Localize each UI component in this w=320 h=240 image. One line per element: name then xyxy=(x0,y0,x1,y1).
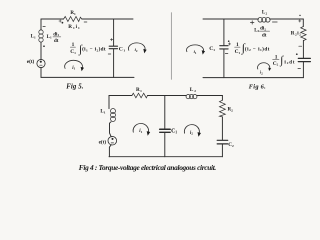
loop current i2 arrow xyxy=(128,43,145,51)
svg-text:R2i2: R2i2 xyxy=(291,31,302,37)
capacitor C1 branch upper wire xyxy=(113,19,115,46)
wire: Fig6 right rail middle xyxy=(302,41,304,58)
svg-text:e(t): e(t) xyxy=(27,58,35,65)
wire: Fig4 left rail lower xyxy=(109,145,111,157)
wire: Fig6 bottom wire xyxy=(203,77,303,79)
svg-text:i2: i2 xyxy=(260,70,263,76)
node dot below L1 xyxy=(43,45,45,47)
svg-text:C1: C1 xyxy=(70,49,76,55)
polarity + before L2 xyxy=(250,21,254,24)
svg-text:C2: C2 xyxy=(273,61,279,67)
wire: Fig4 left rail middle xyxy=(110,122,112,137)
wire: Fig4 right rail top xyxy=(221,96,223,101)
svg-text:C2: C2 xyxy=(228,142,234,148)
svg-text:Fig 5.: Fig 5. xyxy=(66,84,83,91)
svg-text:R2: R2 xyxy=(228,107,234,112)
svg-text:Fig 6.: Fig 6. xyxy=(249,84,266,91)
voltage source e(t) (Fig4) xyxy=(108,136,117,145)
polarity - below C1 xyxy=(108,53,111,55)
polarity + above C1 plates xyxy=(228,43,230,45)
wire: Fig6 top wire right segment xyxy=(270,18,304,20)
capacitor C2 plates (Fig4) xyxy=(217,139,228,141)
resistor R1 (zigzag on top wire) xyxy=(64,17,82,22)
polarity + above C2 xyxy=(296,53,298,55)
svg-text:i1: i1 xyxy=(72,66,75,71)
svg-text:di1: di1 xyxy=(53,31,59,37)
svg-text:R1i1: R1i1 xyxy=(68,24,81,30)
loop current i2 arrow (Fig4) xyxy=(184,125,199,134)
inductor L1 (coil on left rail) xyxy=(39,30,43,34)
divider line between Fig5 and Fig6 xyxy=(170,13,172,80)
node dot before R1 xyxy=(62,22,64,24)
svg-text:dt: dt xyxy=(262,34,267,39)
wire: Fig6 left capacitor branch upper xyxy=(223,19,225,45)
svg-text:i2dt: i2dt xyxy=(284,59,295,65)
loop current i1 arrow xyxy=(65,60,83,68)
svg-text:C1: C1 xyxy=(119,47,126,53)
wire: Fig4 right rail bottom xyxy=(221,144,223,157)
wire: Fig4 top wire middle segment xyxy=(148,95,187,97)
wire: Fig5 top wire left segment xyxy=(41,18,64,20)
capacitor C1 plates (Fig4) xyxy=(160,128,171,130)
wire: Fig4 left rail upper xyxy=(108,96,110,109)
svg-text:(i2 − i1)dt: (i2 − i1)dt xyxy=(245,45,270,52)
node dot at right rail top xyxy=(299,15,300,16)
svg-text:L2: L2 xyxy=(190,87,197,93)
inductor L2 (coil on top wire) xyxy=(258,18,263,23)
wire: Fig5 left rail upper xyxy=(40,19,42,30)
svg-text:L1: L1 xyxy=(100,110,105,115)
loop current i1 arrow (Fig6) xyxy=(187,45,204,52)
wire: Fig6 left capacitor branch lower xyxy=(223,49,225,78)
capacitor C1 branch lower wire xyxy=(113,49,115,77)
wire: Fig4 middle branch upper xyxy=(164,96,166,129)
wire: Fig5 bottom wire xyxy=(41,76,134,78)
polarity - after L2 xyxy=(272,21,277,23)
wire: Fig4 top wire right segment xyxy=(197,95,223,97)
svg-text:e(t): e(t) xyxy=(99,139,107,146)
polarity - above L1 xyxy=(43,26,45,28)
svg-text:Fig 4 : Torque-voltage electri: Fig 4 : Torque-voltage electrical analog… xyxy=(79,163,217,172)
polarity + mark before R1 xyxy=(59,20,62,22)
svg-text:C1: C1 xyxy=(235,49,241,55)
svg-text:di2: di2 xyxy=(260,26,266,32)
svg-text:R1: R1 xyxy=(70,11,76,16)
svg-text:i1: i1 xyxy=(194,49,197,55)
resistor R2 (Fig4 vertical zigzag) xyxy=(220,100,226,117)
wire: Fig4 top wire left segment xyxy=(109,95,132,97)
resistor R2 (vertical zigzag on right rail) xyxy=(301,27,306,41)
svg-text:i1: i1 xyxy=(139,129,142,134)
svg-text:L2: L2 xyxy=(262,11,268,16)
wire: Fig5 top wire right segment xyxy=(82,18,133,20)
svg-text:dt: dt xyxy=(54,39,59,44)
loop current i1 arrow (Fig4) xyxy=(133,123,148,132)
capacitor C2 plates (Fig6) xyxy=(298,57,310,59)
loop current i2 arrow (Fig6) xyxy=(258,63,270,70)
svg-text:(i1 − i2)dt: (i1 − i2)dt xyxy=(82,46,106,53)
resistor R1 (Fig4, zigzag on top wire) xyxy=(132,93,148,98)
svg-text:C1: C1 xyxy=(171,129,177,135)
inductor L1 (Fig4 coil on left rail) xyxy=(111,109,116,114)
polarity - below C1 plates xyxy=(225,53,228,55)
voltage source e(t) xyxy=(37,59,45,67)
wire: Fig4 right rail middle xyxy=(221,117,223,140)
svg-text:L2: L2 xyxy=(254,28,259,33)
wire: Fig6 top wire left segment xyxy=(203,18,258,20)
svg-text:i2: i2 xyxy=(135,47,138,53)
wire: Fig5 left rail lower xyxy=(40,68,42,78)
polarity + above C1 xyxy=(110,38,113,40)
wire: Fig6 right rail bottom xyxy=(302,62,304,78)
capacitor C1 plates (Fig6) xyxy=(220,45,228,47)
svg-text:L1: L1 xyxy=(31,34,36,39)
wire: Fig6 right rail top xyxy=(302,19,304,27)
polarity + right rail top xyxy=(299,20,301,22)
svg-text:i2: i2 xyxy=(190,131,193,136)
polarity - below C2 xyxy=(298,68,301,70)
svg-text:L1: L1 xyxy=(47,35,52,40)
inductor L2 (Fig4 coil on top wire) xyxy=(186,94,190,98)
wire: Fig5 left rail middle xyxy=(40,42,42,59)
svg-text:C1: C1 xyxy=(209,46,215,52)
polarity - below R2 xyxy=(299,45,302,47)
polarity - mark after R1 xyxy=(84,21,87,23)
svg-text:R1: R1 xyxy=(136,87,142,93)
wire: Fig4 bottom wire xyxy=(109,156,222,158)
capacitor C1 plates xyxy=(109,45,117,47)
wire: Fig4 middle branch lower xyxy=(164,133,166,157)
node dot above C1 plates xyxy=(228,40,230,42)
